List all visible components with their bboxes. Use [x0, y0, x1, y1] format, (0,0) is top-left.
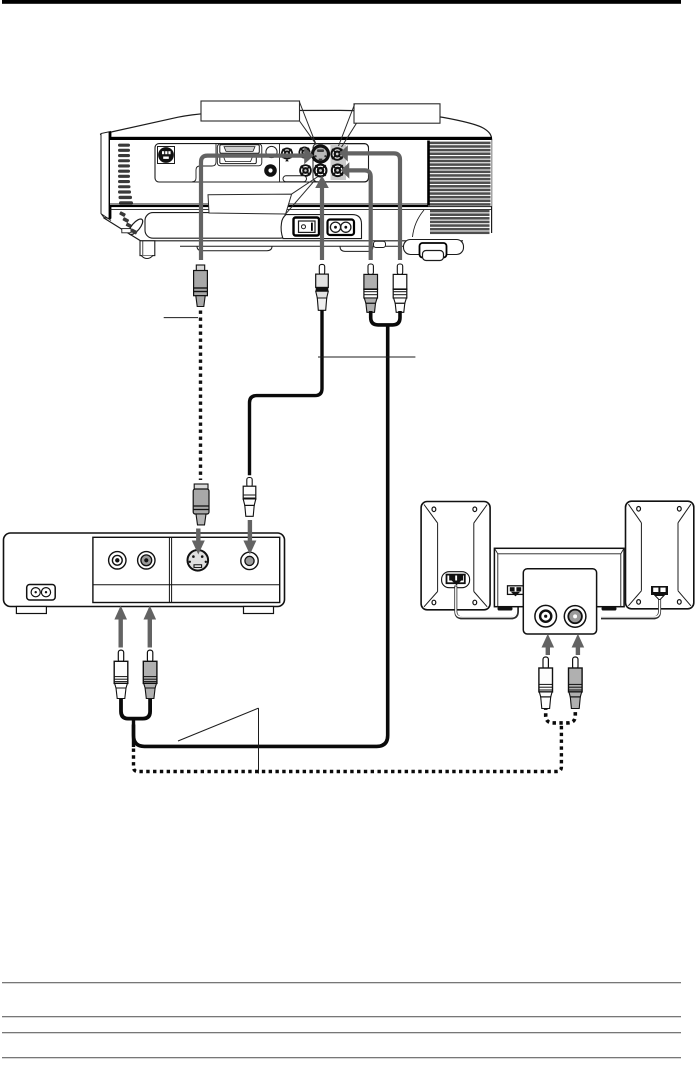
AUDIO IN R jack — [330, 147, 344, 161]
header bar — [2, 0, 681, 4]
amp box left jack (white) — [535, 605, 557, 627]
AUDIO IN L jack — [331, 164, 345, 178]
callout box 1 — [201, 101, 316, 144]
S-video cable arrowhead into S-VIDEO jack — [304, 147, 314, 164]
right speaker bevel lines — [628, 504, 691, 606]
VCR foot right — [244, 607, 274, 614]
amplifier bevel — [495, 549, 624, 607]
computer audio jack 2 — [299, 147, 311, 159]
dashed amp cord (junction down, horizontal, up to amp plugs) — [134, 725, 562, 772]
VCR S-video jack — [188, 549, 209, 570]
amp box right jack (red) — [564, 606, 586, 628]
callout box 3 — [208, 177, 318, 215]
S-video male plug (bottom) — [193, 484, 209, 525]
video cable flight (cable D vertical) — [320, 188, 324, 261]
bottom rule 2 — [2, 1016, 681, 1017]
arrow into VCR video jack — [243, 520, 256, 555]
VCR audio L jack — [109, 552, 126, 569]
audio highlight strip — [331, 144, 347, 180]
D-sub mounting plate — [217, 144, 261, 166]
VCR AC inlet — [27, 585, 56, 601]
amplifier body — [494, 548, 624, 606]
arrow into VCR audio R (up) — [144, 606, 157, 648]
D-sub connector upper — [220, 145, 259, 153]
amplifier feet — [498, 607, 513, 611]
left foot — [140, 241, 155, 259]
oval slot — [283, 176, 307, 182]
VIDEO IN jack — [314, 164, 328, 178]
left speaker wire — [456, 586, 518, 618]
D-sub connector lower — [220, 155, 256, 164]
amplifier left terminal — [508, 586, 524, 597]
lower body skirt line — [180, 245, 403, 247]
audio L arrowhead into AUDIO L jack — [341, 162, 350, 178]
S-video dashed cord — [199, 311, 202, 481]
projector lid curve — [100, 110, 492, 139]
amp white plug — [539, 657, 553, 709]
amp cord U under amp plugs — [546, 707, 576, 723]
AC inlet — [328, 220, 355, 236]
projector rear top black band — [110, 137, 492, 140]
VCR panel divider horizontal — [93, 584, 280, 586]
VCR audio R jack — [138, 552, 155, 569]
right speaker wire — [601, 599, 660, 618]
audio gray plug (under VCR) — [143, 650, 157, 698]
monitor audio jack — [299, 164, 312, 177]
right speaker terminal — [651, 586, 668, 600]
S-video cable flight (cable A corner+shaft) — [201, 156, 305, 260]
jack group recess box — [313, 144, 369, 182]
bottom rule 3 — [2, 1032, 681, 1033]
left speaker body — [421, 502, 490, 610]
video white plug (bottom) — [243, 478, 256, 517]
audio white plug (top, cable B) — [393, 264, 407, 312]
arrow into amp box left jack — [542, 634, 555, 655]
audio R arrowhead into AUDIO R jack — [339, 145, 348, 161]
projector left rim — [101, 132, 111, 219]
amp connector box — [523, 569, 596, 634]
switch recess — [281, 215, 361, 239]
right foot — [420, 243, 447, 261]
video arrowhead into VIDEO jack — [315, 176, 329, 189]
audio cord single line to VCR side — [134, 325, 388, 747]
projector upper body outline — [110, 140, 492, 206]
audio L cable flight (cable C corner+shaft) — [348, 170, 371, 260]
VCR video jack — [241, 552, 258, 569]
video cord black — [250, 310, 323, 475]
lower body arc near right foot — [413, 210, 425, 237]
audio mini jack lower-left — [264, 164, 277, 177]
right vent block upper — [427, 140, 491, 206]
label line S-video cable — [164, 317, 198, 319]
bottom rule 1 — [2, 982, 681, 983]
lower body rim corner line — [102, 214, 112, 221]
audio gray plug (top, cable C) — [364, 264, 378, 312]
body separator lines — [110, 204, 492, 210]
panel inner divider lines — [192, 144, 280, 182]
power switch — [294, 218, 320, 236]
right speaker body — [626, 501, 694, 609]
VCR body — [4, 533, 285, 607]
side control strip — [119, 211, 145, 237]
skirt dip 2 — [340, 246, 373, 251]
lower body bottom edge — [104, 218, 464, 241]
left speaker bevel lines — [424, 505, 487, 607]
audio cord junction stub — [132, 719, 135, 747]
S-VIDEO IN jack — [311, 144, 330, 163]
PC control round port — [266, 146, 277, 157]
audio R cable flight (cable B corner+shaft) — [347, 153, 401, 260]
arrow into VCR audio L (up) — [114, 606, 127, 648]
skirt dip 1 — [197, 246, 272, 250]
audio cord U under VCR plugs — [121, 698, 150, 719]
VCR foot left — [16, 607, 46, 614]
computer audio jack 1 — [281, 148, 293, 162]
amp gray plug — [569, 657, 583, 709]
right vent block lower — [430, 210, 490, 234]
callout box 2 — [339, 104, 441, 147]
left speaker screws — [432, 507, 477, 605]
bottom rule 4 — [2, 1057, 681, 1058]
audio white plug (under VCR) — [114, 650, 128, 698]
arrow into amp box right jack — [572, 634, 585, 655]
right foot bracket — [404, 240, 464, 255]
projector body right edge — [491, 139, 493, 233]
AC DIN port — [158, 147, 175, 164]
arrow into VCR S-video jack — [192, 529, 205, 555]
right speaker screws — [637, 507, 682, 605]
left vent slats — [118, 144, 133, 205]
label pointer bottom (diagonal+vertical) — [178, 708, 259, 773]
S-video male plug (top) — [194, 265, 208, 307]
video white plug (top) — [316, 264, 329, 310]
VCR connector panel — [93, 537, 280, 602]
connector recess panel — [155, 144, 369, 182]
VCR panel divider vertical — [169, 537, 171, 602]
label line audio cable — [318, 356, 415, 358]
left speaker terminal — [442, 572, 470, 588]
skirt tab — [374, 241, 386, 247]
lower inset door — [145, 213, 288, 239]
audio cord merge U — [371, 311, 400, 325]
